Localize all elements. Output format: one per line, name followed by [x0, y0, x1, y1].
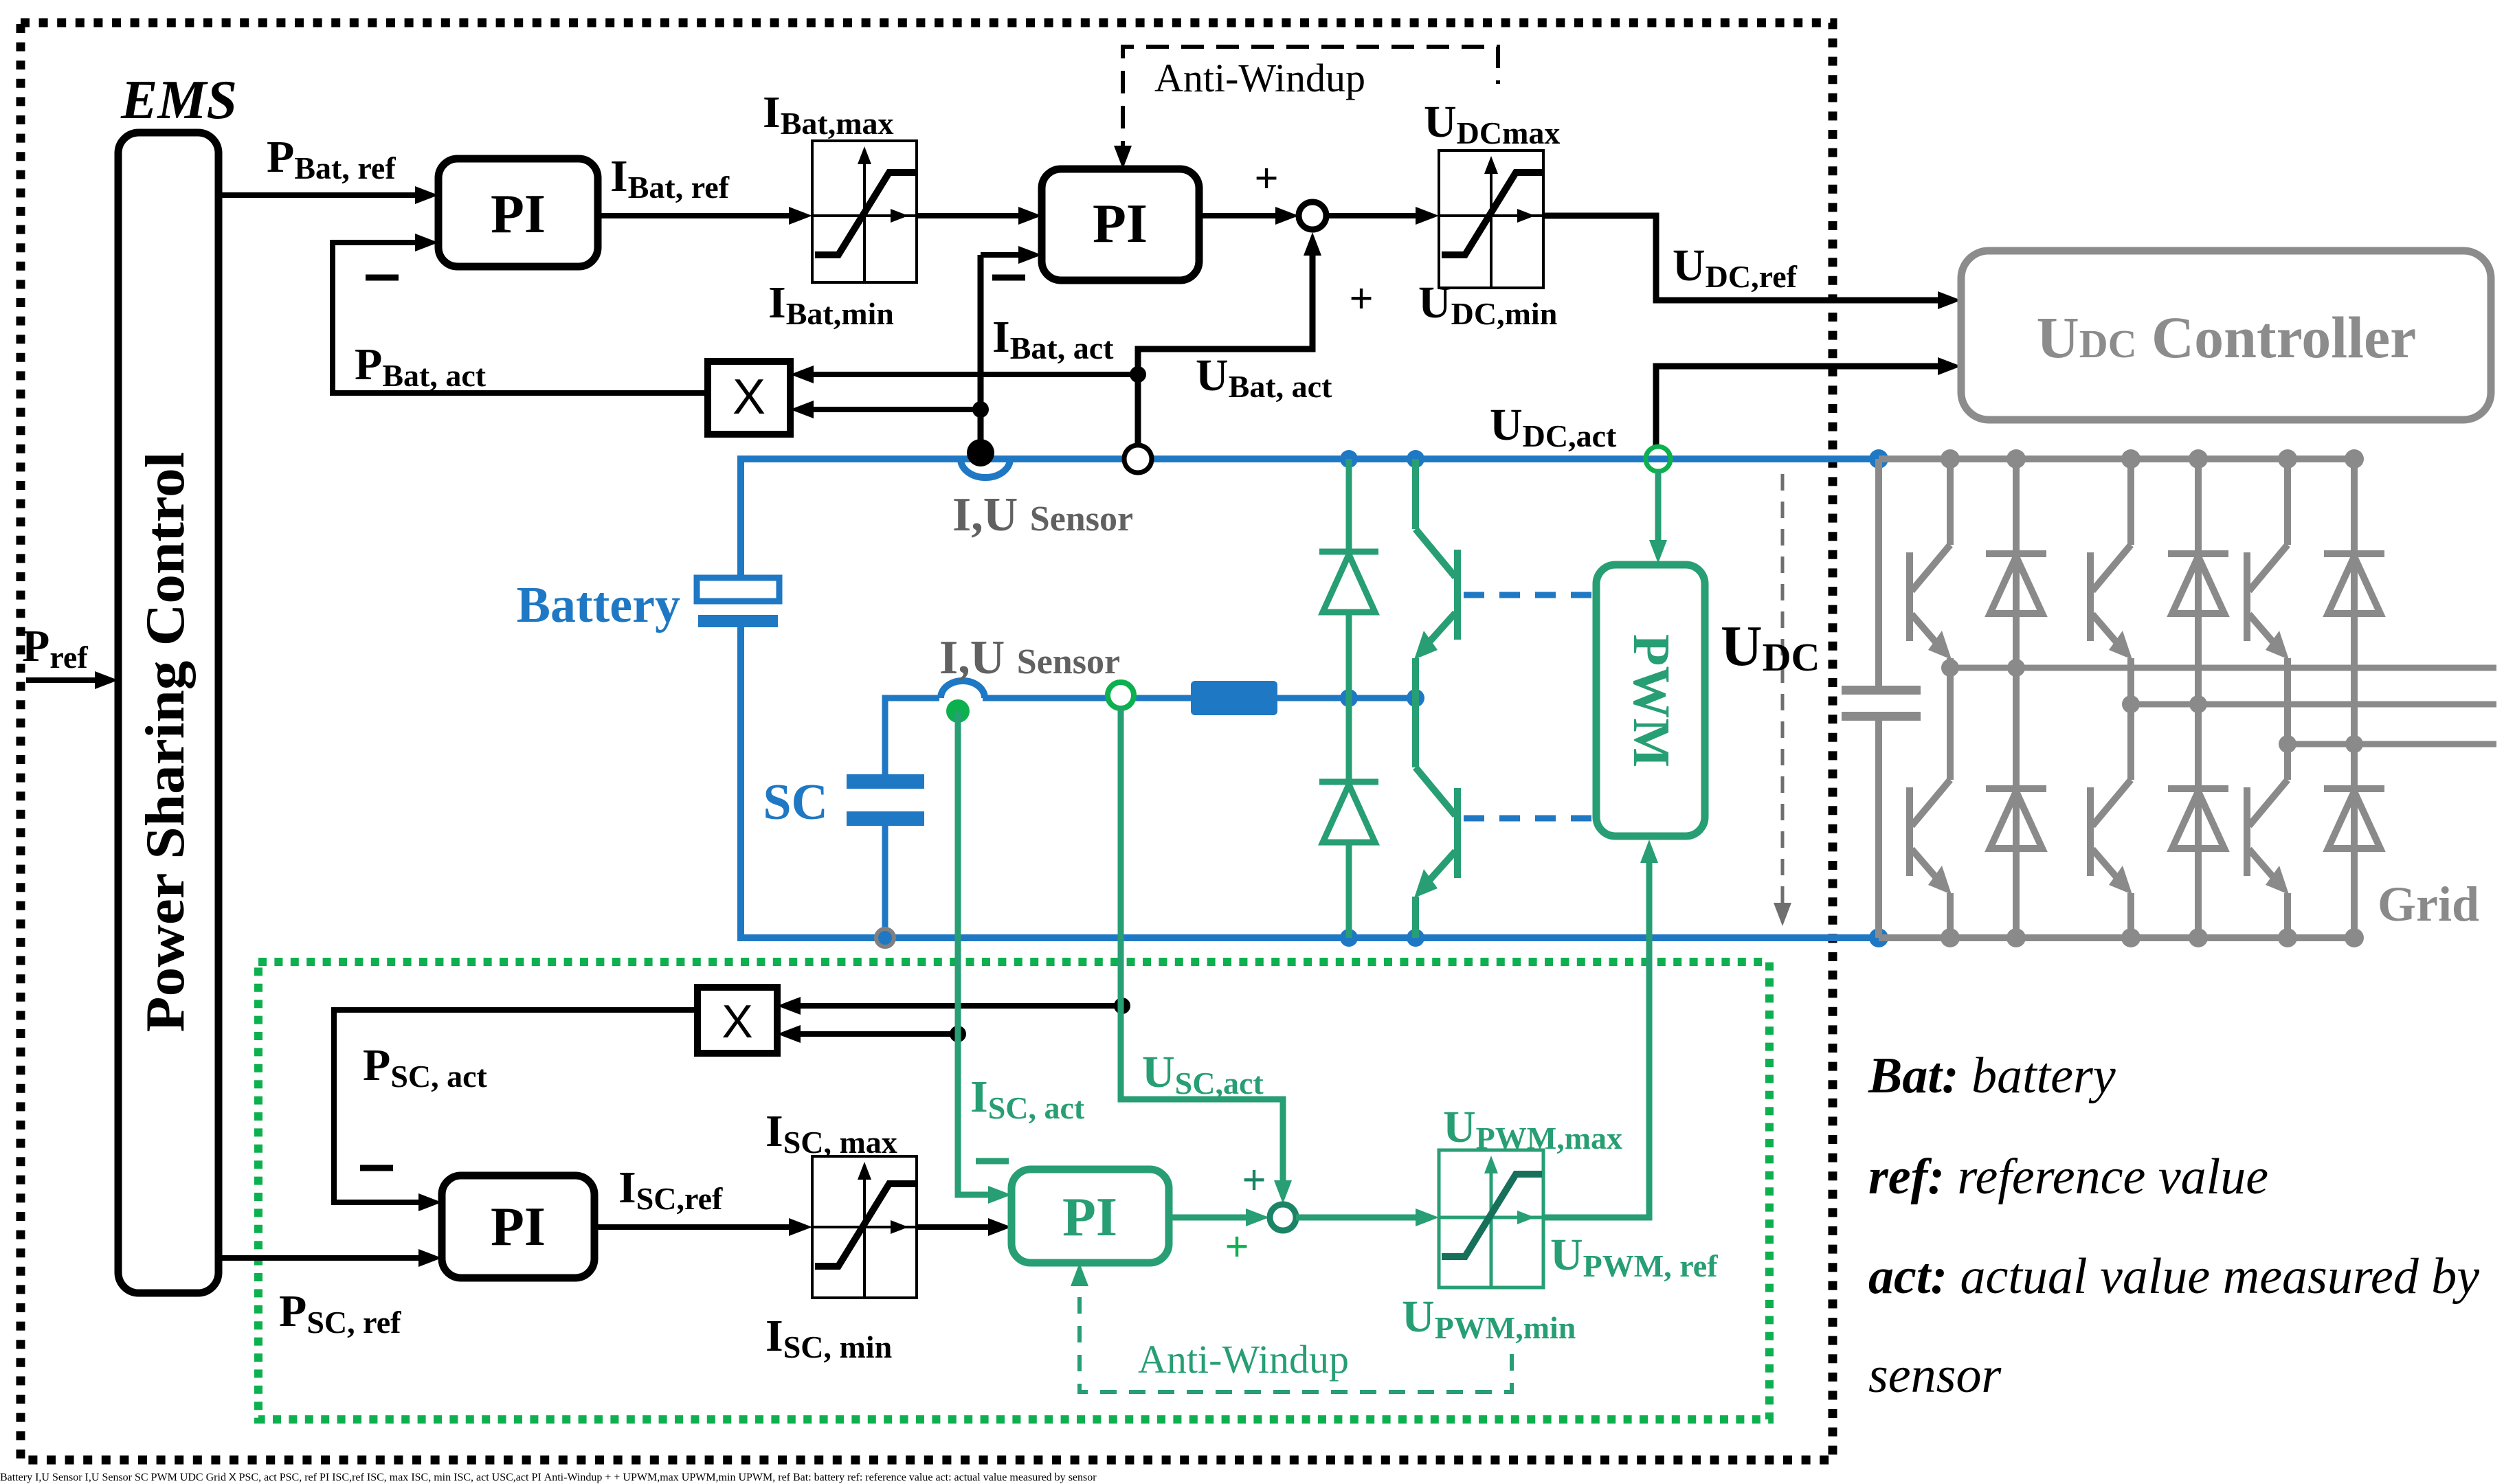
- node voltage sensor circle (battery): [1124, 445, 1152, 473]
- wire summing junction to UDC saturation: [1326, 213, 1416, 218]
- node current sensor dot (battery): [967, 439, 994, 466]
- node ISC junction dot to multiplier: [950, 1026, 966, 1042]
- node SC negative junction dot (gray ring): [876, 929, 894, 947]
- wire UDC dashed measurement arrow (gray): [1781, 474, 1785, 903]
- diode DB upper (inverter): [2168, 459, 2228, 938]
- multiplier X (SC power): [229, 1472, 1097, 1483]
- transistor Q1 (upper, converter): [1416, 459, 1457, 698]
- wire USC to multiplier X: [801, 1003, 1122, 1009]
- wire anti-windup dashed feedback (SC, teal): [1080, 1268, 1512, 1392]
- wire UDC,act to UDC Controller: [1656, 366, 1938, 447]
- supercapacitor symbol SC: [882, 783, 888, 789]
- PI controller (battery current loop): [1042, 169, 1199, 280]
- wire UBat,act sensor riser to summing junction: [1138, 254, 1312, 445]
- svg-text:Anti-Windup: Anti-Windup: [1154, 56, 1365, 100]
- summing junction (UPWM reference, teal): [605, 1472, 1096, 1483]
- wire gate link dashed (lower, blue): [151, 1472, 1097, 1483]
- wire PI output to summing junction (teal): [1169, 1215, 1246, 1221]
- wire PSC,act feedback from X to PI input: [239, 1472, 1097, 1483]
- node inverter rail junction dots: [1941, 449, 2364, 947]
- wire phase C to grid: [2288, 741, 2496, 747]
- svg-text:+: +: [1254, 155, 1278, 202]
- inductor L (SC converter): [135, 1472, 1097, 1483]
- node USC junction dot to multiplier: [1114, 998, 1130, 1014]
- svg-text:PI: PI: [491, 1197, 546, 1257]
- wire USC,act teal sensor line to summing junction: [492, 1472, 1097, 1483]
- svg-text:EMS: EMS: [120, 70, 237, 131]
- diode DA lower (inverter): [1986, 789, 2046, 848]
- svg-text:PI: PI: [1062, 1187, 1117, 1248]
- wire ISC to multiplier X: [239, 1472, 1097, 1483]
- wire gate link dashed (upper, blue): [151, 1472, 1097, 1483]
- UDC Controller block: [1961, 251, 2491, 420]
- Power Sharing Control block: [118, 133, 219, 1293]
- transistor QC upper (inverter): [2247, 459, 2288, 744]
- svg-text:PI: PI: [491, 184, 546, 245]
- wire phase B to grid: [206, 1472, 1097, 1483]
- wire gate link dashed (upper, blue): [1464, 592, 1596, 598]
- wire UBat to multiplier X: [814, 372, 1138, 377]
- node DC bus to inverter dots (blue): [1869, 449, 1888, 469]
- wire DC bus positive (blue top): [0, 1472, 1097, 1483]
- wire UDC,act to PWM (teal): [1655, 472, 1662, 543]
- wire IBat,act into PI minus input: [981, 252, 1018, 258]
- wire USC,act teal sensor line to summing junction: [1121, 708, 1283, 1182]
- wire PBat,ref from Power Sharing Control to PI (battery): [219, 192, 415, 198]
- svg-text:Bat: battery: Bat: battery: [1868, 1048, 2116, 1104]
- transistor QC lower (inverter): [2247, 744, 2288, 938]
- transistor QB upper (inverter): [205, 1472, 207, 1483]
- saturation block ISC limiter: [366, 1472, 368, 1483]
- wire saturation output to PI current controller (SC): [917, 1224, 988, 1230]
- capacitor DC-link (gray): [1842, 459, 1921, 938]
- wire UPWM,ref rising into PWM (teal): [1543, 860, 1649, 1217]
- wire DC bus positive (blue top): [741, 459, 1879, 578]
- battery symbol: [697, 578, 779, 601]
- multiplier X (SC power): [697, 987, 777, 1053]
- wire IBat,act sensor riser: [978, 255, 984, 456]
- wire phase A to grid: [1950, 665, 2496, 671]
- wire PSC,act feedback from X to PI input: [334, 1010, 697, 1202]
- diode DB lower (inverter): [205, 1472, 207, 1483]
- transistor QA upper (inverter): [205, 1472, 207, 1483]
- green dotted SC-control boundary box: [258, 962, 1769, 1419]
- wire PSC,ref from Power Sharing Control to PI: [280, 1472, 1097, 1483]
- diode D2 (lower, converter): [1319, 782, 1378, 842]
- PI controller (SC current loop, teal): [1011, 1169, 1169, 1263]
- saturation block UPWM limiter (teal): [1439, 1150, 1543, 1288]
- wire PSC,ref from Power Sharing Control to PI: [219, 1255, 418, 1261]
- svg-text:PWM: PWM: [1622, 634, 1680, 767]
- node top bus junction dots (converter legs): [151, 1472, 1097, 1483]
- PI controller (SC current loop, teal): [531, 1472, 1096, 1483]
- diode DA upper (inverter): [205, 1472, 207, 1483]
- svg-text:+: +: [1242, 1157, 1266, 1204]
- PI controller (SC power loop): [320, 1472, 1097, 1483]
- node UDC,act pickoff circle (green): [180, 1472, 1097, 1483]
- node voltage sensor circle (SC, green): [1108, 682, 1134, 708]
- wire UDC dashed measurement arrow (gray): [180, 1472, 1097, 1483]
- outer dotted EMS boundary box: [21, 23, 1833, 1460]
- wire phase B to grid: [2131, 701, 2496, 708]
- wire converter diode leg (teal): [150, 1472, 152, 1483]
- multiplier X (battery power): [708, 361, 790, 434]
- wire ISC to multiplier X: [801, 1031, 958, 1037]
- wire saturation output to PI current controller: [917, 213, 1018, 218]
- node bottom bus junction dots (converter legs): [151, 1472, 1097, 1483]
- wire anti-windup dashed feedback (SC, teal): [544, 1472, 545, 1483]
- transistor QB upper (inverter): [2090, 459, 2131, 704]
- summing junction (UPWM reference, teal): [1270, 1204, 1296, 1230]
- node current sensor dot (battery): [35, 1472, 1096, 1483]
- wire inverter DC rails (gray): [1879, 459, 2354, 938]
- sensor arc I,U (SC branch): [85, 1472, 1097, 1483]
- node mid junction dots on SC branch: [151, 1472, 1097, 1483]
- node current sensor dot (SC, green): [85, 1472, 1097, 1483]
- svg-text:Anti-Windup: Anti-Windup: [1138, 1337, 1349, 1382]
- svg-text:sensor: sensor: [1868, 1347, 2002, 1404]
- svg-text:X: X: [722, 996, 752, 1048]
- wire PI output ISC,ref to saturation: [594, 1224, 789, 1230]
- svg-text:+: +: [1225, 1224, 1249, 1270]
- svg-text:act: actual value measured by: act: actual value measured by: [1868, 1248, 2479, 1305]
- wire USC to multiplier X: [239, 1472, 1097, 1483]
- diode D1 (upper, converter): [150, 1472, 152, 1483]
- diode D1 (upper, converter): [1319, 552, 1378, 612]
- wire SC branch (blue): [85, 1472, 1097, 1483]
- diode DA lower (inverter): [205, 1472, 207, 1483]
- transistor QB lower (inverter): [2090, 704, 2131, 938]
- transistor Q2 (lower, converter): [1416, 698, 1457, 938]
- wire summing junction to UPWM saturation (teal): [1296, 1215, 1416, 1221]
- svg-text:+: +: [1349, 276, 1373, 322]
- node voltage sensor circle (battery): [35, 1472, 1096, 1483]
- node UBat junction dot to multiplier: [1130, 366, 1146, 383]
- diode DC upper (inverter): [2324, 459, 2384, 938]
- summing junction (UDC reference): [1299, 202, 1326, 229]
- saturation block UPWM limiter (teal): [622, 1472, 623, 1483]
- wire inverter DC rails (gray): [205, 1472, 207, 1483]
- wire PI output to summing junction (teal): [605, 1472, 1096, 1483]
- node ISC junction dot to multiplier: [239, 1472, 1097, 1483]
- svg-text:Battery: Battery: [517, 577, 680, 633]
- wire ISC,act teal sensor line: [454, 1472, 1096, 1483]
- PI controller (SC power loop): [442, 1176, 594, 1278]
- diode DC lower (inverter): [205, 1472, 207, 1483]
- svg-text:PI: PI: [1093, 194, 1148, 254]
- PWM modulator block: [151, 1472, 1097, 1483]
- wire UDC,ref to UDC Controller: [1543, 216, 1938, 300]
- transistor QC lower (inverter): [205, 1472, 207, 1483]
- transistor QA lower (inverter): [1910, 668, 1950, 938]
- diode DC upper (inverter): [205, 1472, 207, 1483]
- wire IBat to multiplier X: [814, 407, 981, 412]
- wire PBat,act feedback from X to PI input: [333, 243, 708, 393]
- node bottom bus junction dots (converter legs): [1340, 929, 1358, 947]
- wire summing junction to UPWM saturation (teal): [623, 1472, 1096, 1483]
- transistor QB lower (inverter): [205, 1472, 207, 1483]
- transistor Q1 (upper, converter): [150, 1472, 152, 1483]
- wire PI output IBat,ref to saturation: [598, 213, 789, 218]
- svg-text:Power Sharing Control: Power Sharing Control: [135, 451, 196, 1032]
- saturation block UDC limiter: [1439, 150, 1543, 288]
- PWM modulator block: [1596, 565, 1705, 836]
- PI controller (battery power loop): [438, 159, 598, 267]
- saturation block ISC limiter: [812, 1156, 917, 1298]
- wire SC branch (blue): [885, 698, 939, 783]
- node DC bus to inverter dots (blue): [151, 1472, 1097, 1483]
- wire UPWM,ref rising into PWM (teal): [180, 1472, 1097, 1483]
- node IBat junction dot to multiplier: [972, 401, 989, 418]
- transistor QC upper (inverter): [205, 1472, 207, 1483]
- wire anti-windup dashed feedback (battery): [1123, 47, 1498, 164]
- node top bus junction dots (converter legs): [1340, 450, 1358, 468]
- saturation block IBat limiter: [812, 141, 917, 282]
- wire DC bus negative (blue bottom): [741, 627, 1879, 938]
- node UDC,act pickoff circle (green): [1646, 447, 1670, 471]
- sensor arc I,U (SC branch): [941, 681, 985, 698]
- diode DB lower (inverter): [2168, 789, 2228, 848]
- wire UDC,act to PWM (teal): [180, 1472, 1097, 1483]
- transistor Q2 (lower, converter): [150, 1472, 152, 1483]
- inductor L (SC converter): [1191, 681, 1277, 715]
- transistor QA lower (inverter): [205, 1472, 207, 1483]
- node SC negative junction dot (gray ring): [151, 1472, 1097, 1483]
- sensor arc I,U (battery bus): [961, 459, 1010, 477]
- node USC junction dot to multiplier: [239, 1472, 1097, 1483]
- node inverter rail junction dots: [205, 1472, 207, 1483]
- svg-text:ref: reference value: ref: reference value: [1868, 1149, 2268, 1205]
- svg-text:X: X: [733, 370, 765, 425]
- diode DA upper (inverter): [1986, 459, 2046, 938]
- node current sensor dot (SC, green): [946, 699, 970, 723]
- wire DC bus negative (blue bottom): [0, 1472, 1097, 1483]
- wire PI output to summing junction: [1199, 213, 1275, 218]
- transistor QA upper (inverter): [1910, 459, 1950, 668]
- sensor arc I,U (battery bus): [35, 1472, 1096, 1483]
- wire phase C to grid: [206, 1472, 1097, 1483]
- svg-text:Grid: Grid: [2378, 877, 2479, 932]
- wire PI output ISC,ref to saturation: [332, 1472, 1096, 1483]
- node voltage sensor circle (SC, green): [85, 1472, 1097, 1483]
- capacitor DC-link (gray): [205, 1472, 207, 1483]
- wire converter diode leg (teal): [1346, 459, 1352, 938]
- svg-text:SC: SC: [763, 774, 828, 831]
- diode DB upper (inverter): [205, 1472, 207, 1483]
- supercapacitor symbol SC: [135, 1472, 1097, 1483]
- battery symbol: [0, 1472, 1097, 1483]
- wire saturation output to PI current controller (SC): [454, 1472, 1096, 1483]
- node mid junction dots on SC branch: [1340, 689, 1358, 707]
- diode DC lower (inverter): [2324, 789, 2384, 848]
- diode D2 (lower, converter): [150, 1472, 152, 1483]
- wire phase A to grid: [206, 1472, 1097, 1483]
- wire gate link dashed (lower, blue): [1464, 816, 1596, 822]
- wire ISC,act teal sensor line: [958, 711, 988, 1195]
- wire Pref input arrow: [26, 677, 96, 683]
